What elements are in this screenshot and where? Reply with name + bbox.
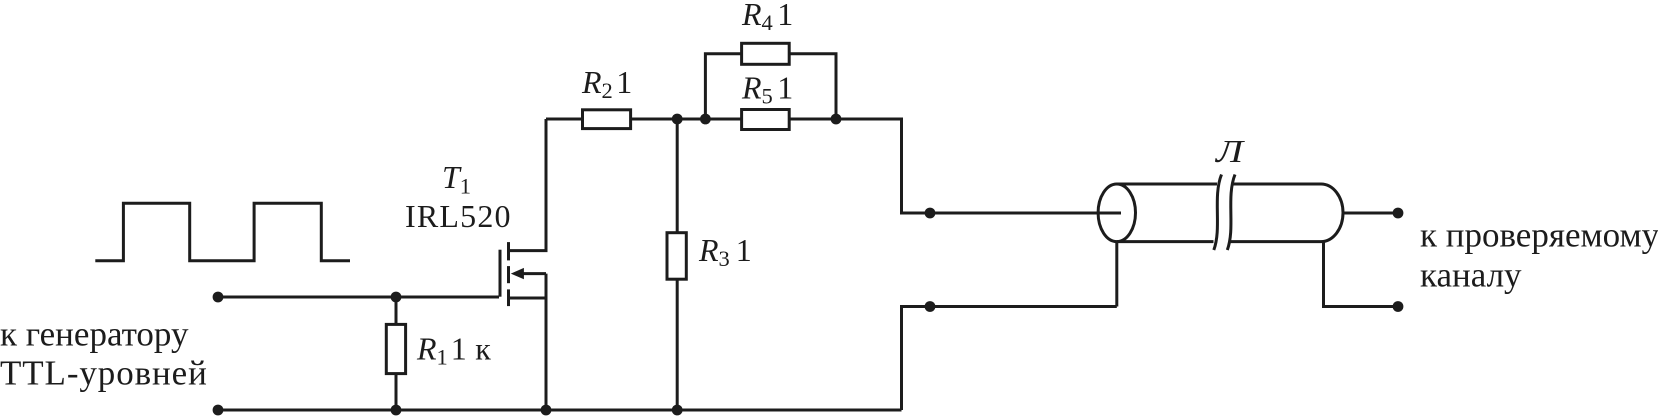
transistor T1 channel dashes bbox=[507, 242, 510, 260]
cable break curve right bbox=[1227, 175, 1235, 251]
resistor R4 branch bbox=[705, 54, 741, 119]
svg-text:R21: R21 bbox=[581, 64, 632, 103]
wire bbox=[677, 118, 705, 121]
wire bottom to cable shield bbox=[902, 307, 1117, 411]
wire source to bottom bbox=[545, 274, 548, 410]
node gate-left terminal bbox=[213, 292, 224, 303]
svg-text:IRL520: IRL520 bbox=[405, 198, 512, 234]
svg-text:T1: T1 bbox=[442, 159, 471, 199]
transistor T1 body/substrate arrow bbox=[521, 272, 546, 275]
node right bottom terminal bbox=[1393, 301, 1404, 312]
wire gate net horizontal bbox=[218, 296, 499, 299]
node cable top tap bbox=[925, 208, 936, 219]
node source bottom junction bbox=[541, 405, 552, 416]
transistor T1 source lead bbox=[509, 297, 547, 300]
node R4 loop left junction bbox=[700, 114, 711, 125]
svg-text:каналу: каналу bbox=[1420, 256, 1522, 295]
svg-text:к проверяемому: к проверяемому bbox=[1420, 216, 1658, 255]
node gate/R1 junction bbox=[391, 292, 402, 303]
node R3 bottom junction bbox=[672, 405, 683, 416]
node cable bottom tap bbox=[925, 301, 936, 312]
node bottom-left terminal bbox=[213, 405, 224, 416]
resistor R1 bbox=[395, 297, 398, 324]
transistor T1 gate bar bbox=[499, 250, 502, 297]
wire top right bbox=[836, 119, 1121, 213]
cable break curve left bbox=[1214, 175, 1222, 251]
resistor R2 bbox=[583, 110, 631, 129]
pulse waveform bbox=[95, 203, 350, 260]
transistor T1 drain lead bbox=[509, 119, 547, 251]
wire cable right shield lead bbox=[1324, 242, 1399, 307]
node R3 junction bbox=[672, 114, 683, 125]
wire cable right top lead bbox=[1343, 212, 1398, 215]
svg-text:R41: R41 bbox=[741, 0, 793, 35]
node R1 bottom junction bbox=[391, 405, 402, 416]
resistor R3 bbox=[676, 119, 679, 233]
node R4 loop right junction bbox=[831, 114, 842, 125]
svg-text:Л: Л bbox=[1215, 134, 1246, 169]
svg-text:к генератору: к генератору bbox=[0, 315, 189, 354]
svg-text:TTL-уровней: TTL-уровней bbox=[0, 354, 208, 393]
node right top terminal bbox=[1393, 208, 1404, 219]
resistor R5 bbox=[705, 118, 741, 121]
svg-text:R11к: R11к bbox=[416, 331, 491, 370]
wire top net bbox=[546, 118, 583, 121]
wire shield drop left bbox=[1115, 242, 1118, 307]
wire bottom net bbox=[218, 409, 902, 412]
cable Л (line under test) body bbox=[1098, 184, 1135, 242]
svg-text:R31: R31 bbox=[698, 232, 752, 271]
svg-text:R51: R51 bbox=[741, 70, 793, 109]
